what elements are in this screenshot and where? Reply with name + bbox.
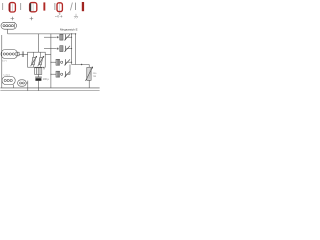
svg-text:Lampe: Lampe bbox=[3, 75, 10, 77]
transistor stage K2 bbox=[57, 46, 72, 52]
junction dot rail-bus2 bbox=[75, 33, 76, 34]
polarity legend minus-circle-plus bbox=[55, 15, 62, 17]
wire BH4 to ground bbox=[27, 81, 29, 91]
collector bus wire 1 bbox=[71, 34, 73, 65]
potentiometer P3 bbox=[85, 67, 92, 81]
battery cell photo B3 polarity arrow bbox=[59, 12, 61, 14]
potentiometer P2 bbox=[38, 56, 44, 67]
collector bus wire 2 bbox=[75, 34, 77, 65]
wire pot box to v2 bbox=[45, 54, 51, 56]
battery cell photo B3 bbox=[57, 3, 62, 12]
battery cell photo B4 bbox=[82, 2, 84, 11]
wire BH3 to ground bbox=[13, 85, 15, 88]
battery cell photo B4 lead bbox=[75, 3, 76, 10]
lamp holder BH4 (small stadium) bbox=[18, 80, 27, 86]
potentiometer P3 lead top bbox=[88, 65, 90, 68]
svg-text:Megawatch E: Megawatch E bbox=[60, 27, 78, 31]
polarity plus mark 2 bbox=[30, 17, 34, 21]
battery cell photo B2 terminal bbox=[43, 2, 45, 10]
left bus wire bbox=[1, 35, 3, 88]
transistor stage K3 bbox=[61, 59, 72, 65]
wire BH4 to junction bbox=[26, 82, 28, 84]
battery cell photo B2 bbox=[30, 3, 37, 12]
svg-text:7W: 7W bbox=[93, 76, 96, 78]
+V rail wire bbox=[8, 33, 76, 35]
ground rail 1 bbox=[0, 87, 99, 89]
battery cell photo B4 slash lead bbox=[70, 3, 72, 11]
transistor stage K1 base wire bbox=[44, 36, 56, 38]
wire BH2 to pot box bbox=[19, 54, 28, 56]
junction dot v2-K3 bbox=[50, 62, 51, 63]
connector bars bbox=[22, 51, 23, 57]
junction dot bus row2 bbox=[71, 48, 72, 49]
transformer Tr box bbox=[35, 68, 42, 75]
junction dot v2-K4 bbox=[50, 74, 51, 75]
junction dot bus row1 bbox=[71, 37, 72, 38]
svg-text:4,5 V: 4,5 V bbox=[2, 61, 8, 63]
wire v1 bbox=[38, 34, 40, 52]
transistor stage K2 base wire bbox=[44, 48, 56, 50]
polarity plus mark 1 bbox=[11, 17, 15, 21]
potentiometer box bbox=[28, 52, 46, 67]
transistor stage K1 bbox=[57, 34, 72, 40]
pot P2 top lead bbox=[40, 52, 42, 57]
ground legend symbol bbox=[74, 14, 78, 19]
potentiometer P3 lead bottom bbox=[88, 81, 90, 88]
battery cell photo B1 lead 2 bbox=[19, 3, 22, 10]
bus to pot wire bbox=[72, 64, 90, 66]
battery holder BH1 (top-left stadium) bbox=[1, 22, 17, 29]
battery cell photo B3 lead bbox=[53, 3, 56, 10]
resistor block R3 bbox=[56, 59, 60, 65]
battery holder BH3 (bottom-left stadium) bbox=[2, 76, 15, 84]
potentiometer P1 bbox=[31, 56, 37, 67]
svg-text:Tr: Tr bbox=[43, 67, 45, 71]
battery holder BH2 (mid-left stadium) bbox=[1, 49, 19, 58]
transistor stage K3 base wire bbox=[51, 61, 56, 63]
resistor block R4 bbox=[56, 71, 60, 77]
battery cell photo B1 lead bbox=[1, 3, 4, 10]
wire BH1 to +rail bbox=[7, 29, 9, 34]
junction dot bbox=[81, 64, 82, 65]
transistor stage K4 bbox=[61, 65, 70, 78]
pot P1 top lead bbox=[33, 52, 35, 57]
electrolytic capacitor C1 100u bbox=[35, 77, 42, 81]
junction dot rail-bus1 bbox=[71, 33, 72, 34]
wire v2 bbox=[50, 34, 52, 88]
wire C1 to ground rail bbox=[38, 81, 40, 91]
wire Tr to capacitor bbox=[38, 74, 40, 77]
svg-text:100 µ: 100 µ bbox=[43, 78, 50, 81]
transistor stage K4 base wire bbox=[51, 73, 56, 75]
junction dot bus row3 bbox=[71, 62, 72, 63]
battery cell photo B1 bbox=[9, 3, 15, 12]
ground rail 2 bbox=[0, 90, 99, 92]
